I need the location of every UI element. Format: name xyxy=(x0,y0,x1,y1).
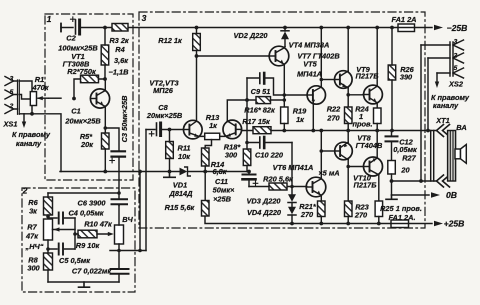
VT7 base wire xyxy=(321,79,334,81)
svg-text:3,6к: 3,6к xyxy=(114,56,129,65)
resistor R17 xyxy=(253,127,271,134)
connector XS1 body xyxy=(18,80,20,114)
R1 bottom lead xyxy=(31,106,33,114)
arrow to right channel (left) xyxy=(23,114,25,124)
capacitor C2 xyxy=(60,24,62,32)
svg-text:VT4 МП38А: VT4 МП38А xyxy=(289,41,330,50)
XS2 riser pin2 xyxy=(427,58,429,131)
svg-text:C6 3900: C6 3900 xyxy=(78,199,107,208)
svg-text:C10 220: C10 220 xyxy=(255,151,284,160)
VT7 emitter to junction xyxy=(347,88,349,107)
wire: +25V bottom rail xyxy=(205,216,432,224)
transistor VT5 xyxy=(307,86,325,104)
svg-text:390: 390 xyxy=(400,73,413,82)
ground wire y113.8 to rail riser xyxy=(19,114,61,172)
svg-text:R15 5,6к: R15 5,6к xyxy=(165,203,196,212)
svg-text:C3 50мк×25В: C3 50мк×25В xyxy=(120,95,129,142)
resistor R3 xyxy=(112,24,128,32)
svg-text:XT1: XT1 xyxy=(435,116,450,125)
transistor VT10 xyxy=(364,157,383,176)
resistor R16 xyxy=(256,97,271,104)
capacitor C5 xyxy=(48,248,75,250)
svg-text:1к: 1к xyxy=(296,115,305,124)
svg-text:каналу: каналу xyxy=(433,101,459,110)
svg-text:6,8к: 6,8к xyxy=(212,167,227,176)
wire wiper to C1 xyxy=(49,97,62,99)
fuse FA1 top xyxy=(398,24,415,32)
transistor VT4 xyxy=(269,46,289,66)
resistor R22 xyxy=(345,107,353,124)
svg-text:FA1 2А: FA1 2А xyxy=(391,15,416,24)
column VT3-collector to C10 node xyxy=(246,78,248,143)
XS2 pin 2 xyxy=(453,53,464,63)
transistor VT8 xyxy=(335,142,353,160)
wire: block2 bottom link y250.5 xyxy=(110,250,146,252)
svg-text:пров.: пров. xyxy=(352,120,372,129)
wire: VT4 base line y56 xyxy=(197,55,270,57)
resistor R4 xyxy=(101,45,109,65)
resistor R14 xyxy=(202,148,210,166)
XS1 pin 5 xyxy=(5,90,18,99)
svg-text:300: 300 xyxy=(27,264,40,273)
resistor R15 xyxy=(202,201,210,217)
svg-text:МП26: МП26 xyxy=(153,86,174,95)
svg-text:2: 2 xyxy=(453,53,458,60)
svg-text:VD4 Д220: VD4 Д220 xyxy=(247,208,282,217)
svg-text:П217Б: П217Б xyxy=(356,72,379,81)
VT1 emitter lead xyxy=(104,107,106,134)
transistor VT1 xyxy=(90,89,109,108)
svg-text:VD3 Д220: VD3 Д220 xyxy=(246,197,281,206)
svg-text:20мк×25В: 20мк×25В xyxy=(146,111,183,120)
svg-text:−1,1В: −1,1В xyxy=(109,68,130,77)
capacitor C8 xyxy=(156,123,158,136)
capacitor C4 xyxy=(48,217,75,219)
diodes VD3 VD4 column xyxy=(291,143,293,195)
svg-text:C2: C2 xyxy=(66,34,76,43)
resistor R11 xyxy=(166,142,174,159)
loudspeaker BA xyxy=(455,149,461,159)
svg-text:R7: R7 xyxy=(27,223,37,232)
svg-text:3: 3 xyxy=(142,13,147,23)
resistor R13 xyxy=(205,133,220,139)
XS1 pin 2 xyxy=(5,105,18,114)
resistor R2 xyxy=(81,75,99,83)
svg-text:2: 2 xyxy=(9,103,14,110)
svg-text:R3 2к: R3 2к xyxy=(109,36,130,45)
diode VD2 xyxy=(281,32,289,40)
R10 wiper arrow xyxy=(108,232,114,236)
svg-text:20мк×25В: 20мк×25В xyxy=(64,117,101,126)
svg-text:R9 10к: R9 10к xyxy=(76,241,101,250)
svg-text:XS2: XS2 xyxy=(448,80,464,89)
svg-text:1: 1 xyxy=(47,14,52,24)
zener VD1 xyxy=(180,168,188,176)
resistor R20 xyxy=(269,183,287,190)
potentiometer R1 xyxy=(30,92,36,106)
VT8 base wire xyxy=(321,150,335,152)
VT10 emitter to R25 xyxy=(378,175,380,201)
VT8 emitter down xyxy=(347,160,349,202)
svg-text:C7 0,022мк: C7 0,022мк xyxy=(72,267,112,276)
svg-text:К правому: К правому xyxy=(12,130,51,139)
svg-text:×25В: ×25В xyxy=(213,195,232,204)
svg-text:10к: 10к xyxy=(178,152,191,161)
XS2 pin 5 xyxy=(453,68,464,78)
block 3 border xyxy=(139,12,425,228)
svg-text:270: 270 xyxy=(326,114,340,123)
wire: XT1 lower line y181 xyxy=(392,180,437,182)
transistor VT3 xyxy=(223,120,242,139)
wire: VT2 collector riser xyxy=(196,51,198,122)
svg-text:3: 3 xyxy=(10,76,14,83)
VT5 base wire xyxy=(284,94,307,96)
capacitor C3 xyxy=(105,128,119,151)
VT10 base wire xyxy=(348,166,363,168)
svg-text:R4: R4 xyxy=(115,45,124,54)
svg-text:R16* 82к: R16* 82к xyxy=(244,106,276,115)
capacitor C10 xyxy=(247,142,292,144)
ground mark under R27 xyxy=(386,195,397,199)
resistor R9 xyxy=(78,230,97,238)
svg-text:−25В: −25В xyxy=(447,23,468,33)
block2 input wire xyxy=(48,192,119,194)
resistor R6 xyxy=(44,197,53,215)
wire: rail drop to block2 xyxy=(139,172,141,251)
XS2 riser pin3 xyxy=(420,45,422,181)
XT1 board columns xyxy=(431,131,434,182)
svg-text:каналу: каналу xyxy=(16,139,42,148)
VT9 collector riser xyxy=(376,28,378,87)
block2 bottom wire xyxy=(48,281,119,283)
arrow +25V xyxy=(434,221,443,227)
resistor R24 xyxy=(374,108,382,124)
svg-text:VT6 МП41А: VT6 МП41А xyxy=(273,163,314,172)
svg-text:5: 5 xyxy=(454,65,458,72)
capacitor C6 xyxy=(118,193,120,199)
potentiometer R7 xyxy=(44,219,53,240)
VT8 collector riser xyxy=(347,131,349,143)
VT5 collector riser xyxy=(320,28,322,88)
wire pin3 to R1 top xyxy=(19,81,32,92)
svg-text:VT5: VT5 xyxy=(303,60,317,69)
svg-text:R12 1к: R12 1к xyxy=(158,36,183,45)
VT6 emitter to R21 xyxy=(320,195,322,201)
VT6 collector riser xyxy=(320,131,322,179)
svg-text:20: 20 xyxy=(400,166,410,175)
svg-text:5: 5 xyxy=(10,89,14,96)
fuse FA1 bottom xyxy=(391,220,409,228)
resistor R26 xyxy=(388,65,396,80)
svg-text:МП41А: МП41А xyxy=(297,70,322,79)
R1 wiper arrow xyxy=(38,97,49,99)
svg-text:R22: R22 xyxy=(327,105,341,114)
resistor R23 xyxy=(345,201,353,217)
XS1 pin 3 xyxy=(5,77,18,86)
transistor VT7 xyxy=(335,71,353,89)
svg-text:XS1: XS1 xyxy=(3,120,18,129)
wiper bus riser xyxy=(74,218,76,249)
R13 tail to R14 xyxy=(205,140,211,148)
svg-text:Д814Д: Д814Д xyxy=(168,189,193,198)
XT1 chevrons top xyxy=(437,125,450,137)
svg-text:ВА: ВА xyxy=(456,123,466,132)
svg-text:R27: R27 xyxy=(402,154,416,163)
svg-text:C4 0,05мк: C4 0,05мк xyxy=(68,209,104,218)
svg-text:R25 1 пров.: R25 1 пров. xyxy=(380,204,422,213)
wire C11 to R20 to VT6 base xyxy=(249,186,307,188)
XS2 pin 3 xyxy=(453,40,464,50)
svg-text:П217Б: П217Б xyxy=(354,181,377,190)
VT10 collector riser to output xyxy=(376,131,378,159)
svg-text:R17 15к: R17 15к xyxy=(242,117,271,126)
capacitor C12 xyxy=(391,131,393,137)
wire: -25V top rail xyxy=(61,27,432,29)
svg-text:ВЧ: ВЧ xyxy=(122,215,133,224)
arrow 0V xyxy=(431,192,440,198)
block 1 border xyxy=(45,14,133,180)
link rail to R15 xyxy=(204,172,206,201)
VT9 base wire xyxy=(348,94,363,96)
arrow -25V xyxy=(434,25,443,31)
resistor R25 xyxy=(375,201,383,217)
svg-text:470к: 470к xyxy=(31,83,49,92)
VT5 emitter drop xyxy=(312,104,314,131)
resistor R21 xyxy=(318,201,326,217)
transistor VT9 xyxy=(364,85,383,104)
VT4 emitter column xyxy=(283,64,285,107)
pin5 stub xyxy=(19,95,30,100)
svg-text:×5 мА: ×5 мА xyxy=(318,169,339,178)
XT1 chevrons bottom xyxy=(437,175,450,187)
resistor R19 xyxy=(281,107,288,124)
transistor VT6 xyxy=(306,177,326,197)
wire: common rail y171.5 xyxy=(60,171,249,173)
block 2 border xyxy=(22,188,135,292)
wire: C8 riser from block2 xyxy=(145,130,147,251)
svg-text:300: 300 xyxy=(225,151,238,160)
svg-text:0В: 0В xyxy=(446,190,457,200)
arrow to right channel (right) xyxy=(436,73,438,83)
VT1 collector lead xyxy=(104,79,106,91)
resistor R8 xyxy=(44,253,53,270)
capacitor C9 xyxy=(247,78,284,95)
wire: 0V line xyxy=(392,194,430,196)
svg-text:ГТ404В: ГТ404В xyxy=(356,141,383,150)
potentiometer R10 xyxy=(115,225,124,244)
VT3 collector riser xyxy=(227,100,247,121)
resistor R27 xyxy=(388,161,396,175)
svg-text:VD2 Д220: VD2 Д220 xyxy=(233,31,268,40)
svg-text:3к: 3к xyxy=(29,207,38,216)
connector XS2 body xyxy=(450,42,453,76)
svg-text:C5 0,5мк: C5 0,5мк xyxy=(59,256,91,265)
resistor R18 xyxy=(243,149,251,166)
svg-text:270: 270 xyxy=(354,211,368,220)
svg-text:47к: 47к xyxy=(25,232,39,241)
capacitor C11 xyxy=(248,172,250,175)
VT9 emitter to R24 xyxy=(376,103,378,108)
capacitor C7 xyxy=(118,251,120,269)
svg-text:1к: 1к xyxy=(209,121,218,130)
transistor VT2 xyxy=(184,120,203,139)
VT7 collector riser xyxy=(347,28,349,72)
ground mark xyxy=(79,282,90,287)
resistor R12 xyxy=(193,34,201,51)
svg-text:R20 5,6к: R20 5,6к xyxy=(263,175,294,184)
svg-text:C1: C1 xyxy=(71,107,80,116)
svg-text:2: 2 xyxy=(22,186,28,196)
svg-text:270: 270 xyxy=(300,210,314,219)
wire: C8 input line xyxy=(146,129,184,131)
svg-text:FA1 2А.: FA1 2А. xyxy=(388,213,415,222)
svg-text:+25В: +25В xyxy=(444,219,465,229)
svg-text:20к: 20к xyxy=(80,140,94,149)
svg-text:3: 3 xyxy=(454,39,458,46)
svg-text:50мк×: 50мк× xyxy=(213,186,235,195)
svg-text:„НЧ“: „НЧ“ xyxy=(25,242,44,251)
svg-text:R10 47к: R10 47к xyxy=(84,220,113,229)
wire: output line y130.5 xyxy=(242,130,437,132)
XS2 pin wires xyxy=(421,45,450,73)
svg-text:R2*750к: R2*750к xyxy=(67,67,97,76)
svg-text:C9 51: C9 51 xyxy=(251,87,271,96)
resistor R5 xyxy=(102,133,110,149)
ground mark under R11 xyxy=(164,172,175,178)
